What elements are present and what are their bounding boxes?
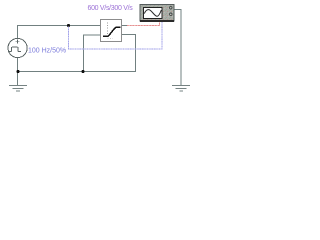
svg-text:100 Hz/50%: 100 Hz/50% [28, 48, 66, 55]
svg-text:600 V/s/300 V/s: 600 V/s/300 V/s [88, 5, 134, 12]
